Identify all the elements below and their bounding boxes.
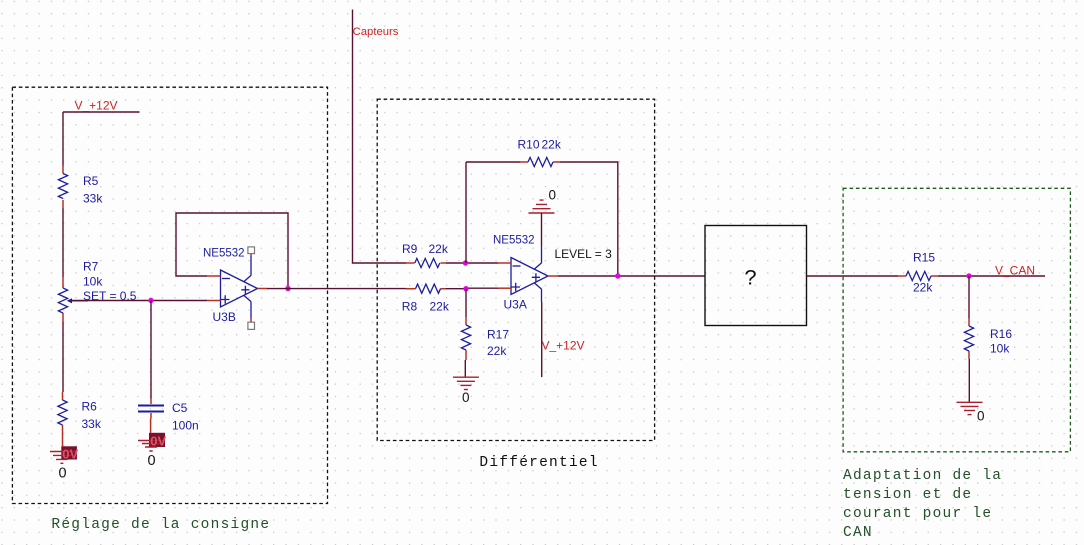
svg-text:Différentiel: Différentiel (479, 455, 598, 471)
resistor R16 (964, 318, 1012, 359)
svg-text:22k: 22k (429, 242, 449, 256)
wire junction to C5 (150, 301, 152, 399)
wire R7 to R6 (62, 322, 64, 392)
node U3A output (615, 273, 620, 278)
svg-text:R15: R15 (913, 251, 935, 265)
svg-text:NE5532: NE5532 (493, 235, 535, 247)
resistor R10 (518, 138, 562, 167)
wire C5 to ground (150, 419, 152, 433)
svg-text:Adaptation de la: Adaptation de la (843, 468, 1002, 484)
node R9/R10 (463, 260, 468, 265)
svg-text:R7: R7 (83, 260, 99, 274)
wire R10 left horizontal (466, 161, 520, 163)
svg-text:V_CAN: V_CAN (995, 264, 1035, 278)
wire R17 to ground (464, 360, 466, 377)
wire V+12V rail (63, 111, 140, 113)
svg-text:22k: 22k (913, 281, 933, 295)
svg-text:22k: 22k (487, 344, 507, 358)
wire U3A V- to V_+12V (541, 302, 543, 377)
svg-text:10k: 10k (990, 342, 1010, 356)
svg-text:tension et de: tension et de (843, 487, 972, 503)
section box: Differentiel (377, 99, 654, 440)
svg-text:Capteurs: Capteurs (353, 26, 399, 38)
node R15/R16 (966, 273, 971, 278)
svg-text:U3A: U3A (504, 298, 527, 312)
svg-text:22k: 22k (430, 300, 450, 314)
svg-text:0V: 0V (62, 447, 78, 462)
resistor R15 (898, 251, 938, 295)
svg-text:10k: 10k (83, 275, 103, 289)
resistor R9 (402, 242, 449, 268)
unknown block ? (705, 226, 807, 326)
node junction R7/C5 (148, 298, 153, 303)
wire R5 to R7 (62, 208, 64, 277)
svg-text:22k: 22k (542, 138, 562, 152)
svg-text:33k: 33k (82, 417, 102, 431)
svg-text:V_+12V: V_+12V (542, 339, 585, 353)
wire R10 left vertical (465, 162, 467, 263)
resistor R5 (58, 166, 103, 209)
svg-text:courant pour le: courant pour le (843, 506, 992, 522)
svg-text:R16: R16 (990, 327, 1012, 341)
wire node to R17 (465, 289, 467, 317)
wire wiper R7 to junction (71, 300, 152, 302)
wire R15 to V_CAN (938, 275, 1045, 277)
resistor R6 (58, 392, 102, 446)
svg-text:R10: R10 (518, 138, 540, 152)
svg-text:LEVEL = 3: LEVEL = 3 (555, 247, 613, 261)
svg-text:R5: R5 (83, 174, 99, 188)
wire junction to U3B + input (151, 300, 207, 302)
wire feedback U3B (176, 213, 288, 289)
svg-text:?: ? (744, 267, 757, 292)
svg-text:U3B: U3B (213, 310, 236, 324)
wire R8 to node (446, 288, 466, 290)
wire R10 right to output node (560, 162, 618, 276)
svg-text:R17: R17 (487, 328, 509, 342)
svg-text:NE5532: NE5532 (203, 248, 245, 260)
wire block to R15 (807, 275, 899, 277)
wire node to R16 (968, 276, 970, 318)
svg-text:0: 0 (462, 390, 470, 405)
svg-text:CAN: CAN (843, 525, 873, 541)
wire U3A output (558, 275, 705, 277)
svg-text:R6: R6 (82, 400, 98, 414)
section box: Adaptation CAN (843, 188, 1070, 452)
resistor R17 (461, 317, 509, 360)
svg-text:C5: C5 (172, 401, 188, 415)
unconnected pin marker (U3B bottom) (248, 322, 255, 329)
svg-text:R9: R9 (402, 242, 418, 256)
node R8/R17 (463, 286, 468, 291)
svg-text:0: 0 (977, 409, 985, 424)
svg-text:0: 0 (148, 453, 156, 469)
svg-text:0: 0 (549, 188, 557, 203)
wire R9 to node (446, 262, 466, 264)
wire R16 to ground (968, 359, 970, 402)
svg-text:0: 0 (59, 466, 67, 482)
wire node to U3A + input (466, 287, 498, 289)
wire Capteurs (353, 10, 407, 264)
wire node to U3A - input (466, 262, 499, 264)
ground 0V (under R6) (50, 446, 79, 481)
section box: Reglage de la consigne (12, 87, 327, 503)
unconnected pin marker (U3B top) (248, 247, 255, 254)
potentiometer R7 (58, 260, 136, 323)
svg-text:Réglage de la consigne: Réglage de la consigne (51, 517, 270, 533)
wire U3B output to R8 (267, 288, 406, 290)
svg-text:33k: 33k (83, 192, 103, 206)
ground 0 (under R17) (453, 377, 479, 405)
wire V rail to R5 (62, 112, 64, 166)
op-amp U3B (203, 248, 267, 325)
svg-text:0V: 0V (150, 434, 166, 449)
ground 0V (under C5) (138, 433, 167, 469)
svg-text:V_+12V: V_+12V (75, 99, 118, 113)
section title: Adaptation de la tension et de courant pour le CAN (843, 468, 1002, 541)
ground 0 (under R16) (957, 402, 985, 423)
node U3B output (285, 286, 290, 291)
svg-text:100n: 100n (172, 419, 199, 433)
op-amp U3A (493, 235, 558, 312)
svg-text:R8: R8 (402, 300, 418, 314)
capacitor C5 (138, 399, 199, 433)
ground 0 (inverted, above U3A) (529, 188, 557, 247)
resistor R8 (402, 284, 450, 313)
